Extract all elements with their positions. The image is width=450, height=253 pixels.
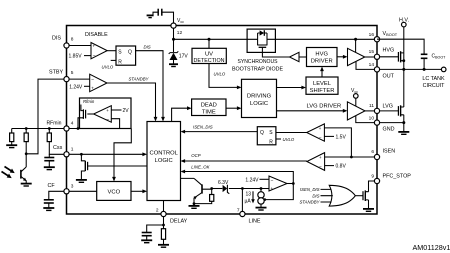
pin 7 LINE (237, 207, 261, 224)
capacitor CBOOT (377, 39, 446, 69)
wire GND node (380, 121, 406, 131)
DEAD TIME block (192, 99, 226, 116)
svg-text:RFmin: RFmin (47, 121, 62, 127)
LEVEL SHIFTER block (306, 77, 338, 94)
resistor Rss (47, 129, 64, 155)
terminal Vcc (LVG driver supply) (351, 88, 358, 106)
svg-text:SYNCHRONOUS: SYNCHRONOUS (238, 59, 278, 65)
VBOOT rail (275, 38, 374, 41)
svg-text:CONTROL: CONTROL (150, 150, 179, 156)
svg-text:CF: CF (48, 183, 56, 189)
svg-text:−: − (91, 77, 94, 83)
ground (opto emitter) (21, 184, 32, 186)
ground (half bridge) (398, 132, 409, 134)
wire VCO to control logic (131, 189, 147, 193)
ground (line clamp) (189, 204, 200, 209)
pin 9 PFC_STOP (371, 173, 411, 183)
svg-text:SHIFTER: SHIFTER (310, 88, 335, 94)
ground (Vcc bypass cap) (147, 15, 154, 17)
pin 14 OUT (369, 62, 395, 79)
svg-text:12: 12 (177, 30, 183, 36)
wire OUT node (380, 68, 442, 71)
wire Css to control logic (69, 152, 147, 156)
svg-text:DEAD: DEAD (201, 102, 217, 108)
wire LINE node (229, 187, 269, 211)
svg-text:STBY: STBY (49, 70, 63, 76)
transistor line clamp (181, 178, 214, 205)
svg-text:6.3V: 6.3V (218, 180, 229, 186)
svg-text:GND: GND (383, 127, 395, 133)
driver LVG output stage (347, 102, 374, 123)
wire ISEN line (324, 128, 374, 159)
svg-text:2: 2 (156, 207, 159, 213)
svg-text:13: 13 (246, 192, 252, 198)
svg-text:DRIVER: DRIVER (311, 59, 333, 65)
svg-text:+: + (319, 126, 322, 131)
or gate pfc (300, 185, 356, 206)
pin 11 LVG (369, 103, 393, 114)
wire Vcc rail (172, 28, 247, 41)
comparator 1.5V (307, 124, 347, 141)
DRIVING LOGIC block (242, 79, 277, 117)
svg-text:DIS: DIS (52, 36, 61, 42)
wire ISEN_DIS to control logic (181, 125, 258, 134)
ground (Css discharge mosfet) (76, 180, 87, 182)
svg-text:+: + (93, 44, 96, 49)
zener 6.3V (212, 180, 230, 194)
svg-text:14: 14 (369, 62, 375, 68)
terminal H.V. (399, 17, 409, 53)
svg-text:9: 9 (371, 174, 374, 180)
capacitor CF (44, 191, 64, 207)
svg-text:Q: Q (128, 49, 132, 55)
comparator disable 1.85V (69, 32, 109, 60)
ground (PFC mosfet) (363, 209, 374, 211)
svg-text:1.24V: 1.24V (69, 84, 83, 90)
svg-text:10: 10 (369, 115, 375, 121)
wire RFmin line (12, 127, 120, 130)
svg-text:0.8V: 0.8V (336, 164, 347, 170)
capacitor Vcc bypass (153, 9, 174, 23)
synchronous bootstrap diode box (232, 29, 283, 73)
svg-text:1.85V: 1.85V (69, 54, 83, 60)
svg-text:+: + (106, 108, 109, 113)
svg-text:−: − (319, 136, 322, 141)
capacitor Css (44, 154, 54, 166)
svg-text:LINE_OK: LINE_OK (191, 164, 210, 169)
svg-text:OUT: OUT (383, 73, 395, 79)
svg-text:1: 1 (71, 147, 74, 153)
pin 5 STBY (49, 70, 74, 82)
svg-text:Rfmin: Rfmin (83, 99, 95, 104)
svg-text:HVG: HVG (383, 47, 395, 53)
svg-text:VBOOT: VBOOT (383, 31, 398, 37)
ground (delay cap) (141, 240, 152, 242)
svg-text:AM01128v1: AM01128v1 (413, 243, 450, 252)
svg-text:STANDBY: STANDBY (129, 76, 150, 81)
ground (Css cap) (44, 167, 55, 169)
resistor opto collector (24, 129, 28, 156)
pin 4 RFmin (47, 121, 74, 132)
ground (current source) (256, 208, 267, 210)
svg-text:+: + (271, 186, 274, 191)
mosfet PFC_STOP (355, 181, 374, 208)
pin 16 VBOOT (369, 31, 398, 42)
wire HVG driver to buffer (299, 56, 307, 58)
wire Rfmin block to VCO (112, 129, 131, 182)
svg-text:CIRCUIT: CIRCUIT (423, 83, 446, 89)
svg-text:3: 3 (71, 184, 74, 190)
Rfmin regulator block (78, 98, 131, 129)
svg-text:Q: Q (260, 130, 264, 136)
svg-text:UVLO: UVLO (102, 65, 114, 70)
comparator standby 1.24V (69, 74, 107, 92)
wire CF to VCO (69, 190, 97, 192)
svg-text:LOGIC: LOGIC (155, 158, 173, 164)
wire driving logic to LVG driver (277, 104, 348, 113)
svg-text:R: R (118, 59, 122, 65)
svg-text:DISABLE: DISABLE (85, 32, 108, 38)
svg-text:17V: 17V (179, 54, 189, 60)
svg-text:−: − (107, 118, 110, 123)
svg-text:DRIVING: DRIVING (247, 94, 272, 100)
ground (17V zener) (169, 64, 178, 66)
HVG DRIVER block (307, 48, 338, 67)
pin 12 Vcc (171, 18, 184, 36)
pin 6 ISEN (371, 149, 395, 160)
comparator 0.8V OCP (307, 153, 347, 171)
CONTROL LOGIC block (147, 122, 181, 201)
resistor Rfmin external (10, 129, 14, 145)
mosfet high-side external (380, 51, 406, 69)
wire DELAY node (162, 201, 165, 229)
wire STANDBY to control logic (107, 76, 157, 121)
svg-text:OCP: OCP (191, 153, 200, 158)
svg-text:LINE: LINE (249, 219, 261, 225)
buffer bootstrap driver (290, 52, 300, 61)
svg-text:4: 4 (71, 121, 74, 127)
svg-text:DIS: DIS (144, 44, 151, 49)
svg-text:15: 15 (369, 49, 375, 55)
svg-text:5: 5 (71, 70, 74, 76)
svg-text:−: − (319, 165, 322, 170)
svg-text:16: 16 (369, 32, 375, 38)
svg-text:BOOTSTRAP DIODE: BOOTSTRAP DIODE (232, 67, 283, 73)
IC boundary (67, 26, 378, 215)
wire level shifter to HVG driver (320, 67, 324, 78)
svg-text:DIS: DIS (312, 193, 319, 198)
pin 15 HVG (369, 47, 395, 59)
svg-text:ISEN: ISEN (383, 149, 396, 155)
pin 10 GND (369, 115, 395, 132)
svg-text:UVLO: UVLO (283, 137, 295, 142)
svg-text:VCO: VCO (108, 189, 121, 195)
latch Q-S-R ISEN_DIS (257, 127, 306, 146)
svg-text:1.5V: 1.5V (336, 134, 347, 140)
wire OCP to control logic (181, 153, 307, 163)
svg-text:8: 8 (71, 37, 74, 43)
ground (CF cap) (43, 208, 54, 210)
svg-text:6: 6 (371, 149, 374, 155)
svg-text:LOGIC: LOGIC (250, 101, 268, 107)
ground (delay resistor) (158, 245, 169, 247)
svg-text:R: R (269, 139, 273, 145)
svg-text:Css: Css (53, 145, 63, 151)
svg-text:HVG: HVG (315, 52, 328, 58)
svg-text:STANDBY: STANDBY (300, 200, 321, 205)
wire DIS latch output to control logic (136, 44, 165, 121)
zener 17V (169, 39, 189, 63)
resistor delay (161, 229, 165, 245)
svg-text:PFC_STOP: PFC_STOP (383, 173, 412, 179)
resistor line clamp base (194, 189, 214, 204)
svg-text:LEVEL: LEVEL (313, 81, 332, 87)
wire driving logic to level shifter (277, 86, 307, 90)
wire UVLO to driving logic (209, 64, 242, 90)
svg-text:DETECTION: DETECTION (194, 58, 225, 64)
svg-text:1.24V: 1.24V (245, 177, 259, 183)
light arrows opto (2, 167, 15, 179)
terminal LC tank (422, 67, 446, 89)
svg-text:LC TANK: LC TANK (422, 76, 445, 82)
UV DETECTION block (192, 39, 226, 64)
pin 3 CF (48, 183, 74, 194)
svg-text:ISEN_DIS: ISEN_DIS (300, 187, 320, 192)
wire dead time to driving logic (226, 106, 242, 110)
svg-text:2V: 2V (123, 108, 130, 114)
pin 2 DELAY (156, 207, 188, 224)
wire control logic to dead time (172, 106, 192, 121)
svg-text:LVG DRIVER: LVG DRIVER (307, 104, 342, 110)
svg-text:−: − (93, 54, 96, 60)
comparator 1.24V line sense (245, 176, 294, 201)
wire bootstrap gate (262, 52, 289, 57)
VCO block (97, 182, 131, 201)
svg-text:DELAY: DELAY (170, 219, 188, 225)
svg-text:+: + (319, 155, 322, 160)
latch S-Q disable (102, 46, 136, 70)
svg-text:µA: µA (245, 198, 252, 204)
svg-text:−: − (271, 179, 274, 184)
current source 13uA (245, 189, 265, 208)
ground (Rfmin resistor) (6, 145, 17, 147)
wire STBY down to opto (26, 79, 64, 154)
svg-text:TIME: TIME (202, 109, 216, 115)
pin 1 Css (53, 145, 74, 157)
driver HVG output stage (337, 39, 374, 69)
mosfet low-side external (380, 69, 404, 122)
svg-text:UV: UV (205, 51, 213, 57)
wire LINE_OK to control logic (181, 164, 294, 183)
phototransistor optocoupler (21, 154, 27, 183)
svg-text:UVLO: UVLO (214, 72, 226, 77)
pin 8 DIS (52, 36, 74, 49)
svg-text:7: 7 (237, 207, 240, 213)
svg-text:LVG: LVG (383, 103, 393, 109)
mosfet Css discharge (81, 154, 147, 179)
capacitor delay (142, 225, 164, 240)
svg-text:11: 11 (369, 103, 374, 109)
svg-text:+: + (91, 85, 94, 90)
svg-text:ISEN_DIS: ISEN_DIS (193, 125, 213, 130)
